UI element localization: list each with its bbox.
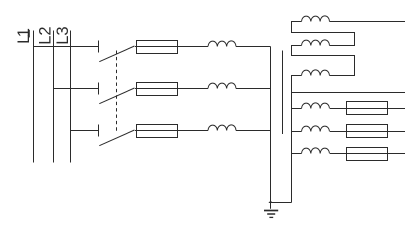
svg-text:L3: L3: [54, 26, 72, 44]
svg-text:L2: L2: [36, 26, 54, 44]
svg-text:L1: L1: [15, 28, 33, 44]
